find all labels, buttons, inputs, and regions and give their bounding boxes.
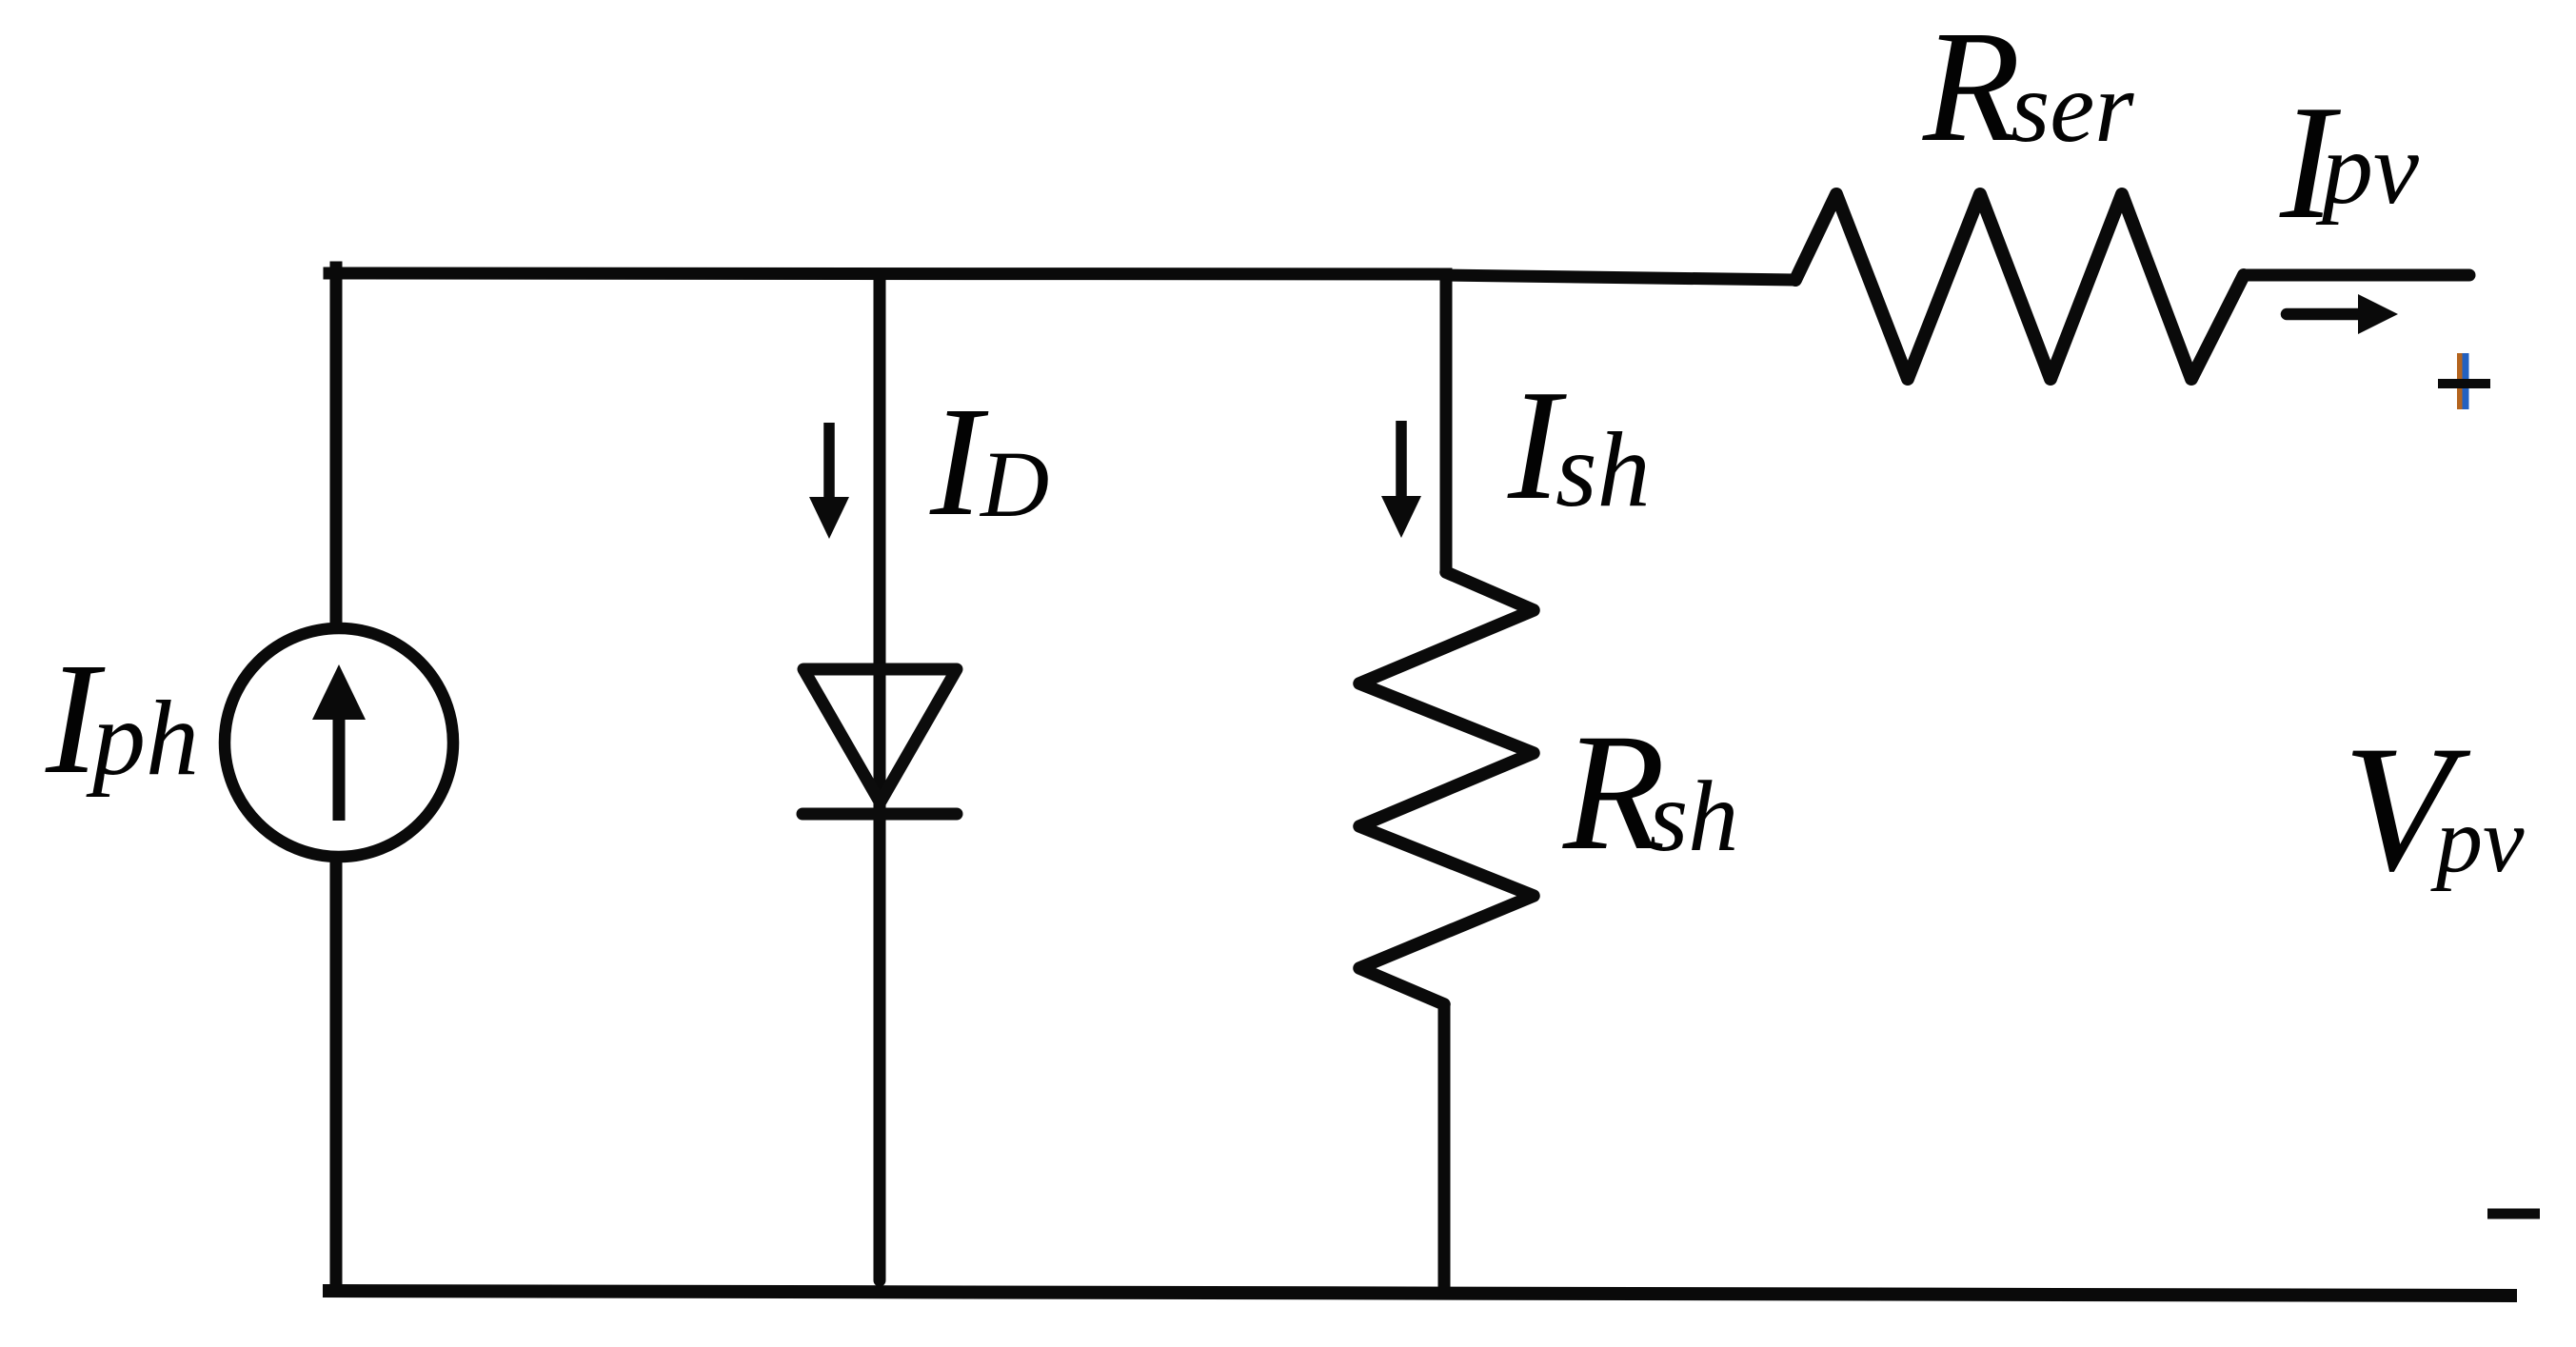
wire left rail lower bbox=[330, 861, 343, 1292]
resistor Rsh zigzag bbox=[1359, 572, 1534, 1004]
current source arrow shaft bbox=[333, 714, 346, 821]
diode D triangle bbox=[803, 669, 957, 802]
wire left rail upper bbox=[330, 267, 343, 624]
current source arrowhead bbox=[312, 664, 366, 720]
current arrow Ipv bbox=[2287, 308, 2365, 321]
current source Iph circle bbox=[225, 628, 453, 857]
svg-text:pv: pv bbox=[2315, 112, 2419, 226]
svg-text:sh: sh bbox=[1556, 411, 1651, 529]
svg-text:pv: pv bbox=[2430, 789, 2525, 892]
wire shunt branch upper bbox=[1440, 275, 1453, 574]
svg-text:D: D bbox=[979, 431, 1049, 537]
resistor Rser zigzag bbox=[1795, 194, 2244, 379]
wire diode branch bbox=[874, 274, 886, 1280]
svg-text:R: R bbox=[1922, 0, 2021, 175]
current arrow ID bbox=[823, 423, 835, 502]
current arrow Ish bbox=[1396, 421, 1407, 500]
wire top rail right segment bbox=[1440, 275, 1795, 280]
wire bottom rail bbox=[329, 1291, 2510, 1296]
wire output top right bbox=[2244, 269, 2469, 282]
svg-text:ser: ser bbox=[2011, 51, 2134, 163]
svg-text:sh: sh bbox=[1649, 761, 1738, 872]
svg-text:ph: ph bbox=[86, 680, 199, 798]
diode D cathode bar bbox=[803, 808, 957, 821]
minus terminal bbox=[2487, 1209, 2540, 1219]
wire top rail left segment bbox=[329, 273, 1446, 274]
wire shunt branch lower bbox=[1438, 1002, 1451, 1292]
plus terminal bbox=[2438, 353, 2490, 409]
